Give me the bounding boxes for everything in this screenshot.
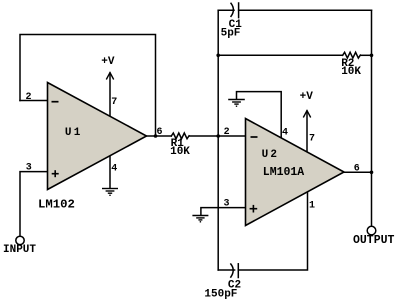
capacitor C1 [231, 3, 233, 16]
wire R1 to U2 pin 2 [189, 135, 245, 137]
wire U1 pin 4 to ground [109, 156, 111, 189]
svg-text:LM102: LM102 [38, 198, 75, 212]
wire C1 to output net [239, 9, 372, 11]
op-amp U2 plus sign [250, 205, 258, 213]
op-amp U1 [48, 83, 147, 190]
wire U2 pin 7 supply [306, 111, 308, 152]
svg-text:+V: +V [300, 91, 314, 103]
wire U1 feedback loop (output to pin 2) [20, 35, 156, 137]
wire summing node to R2 [218, 54, 342, 56]
svg-text:+V: +V [101, 56, 115, 68]
svg-text:10K: 10K [170, 146, 190, 158]
svg-text:5pF: 5pF [221, 27, 241, 39]
wire top to C1 [218, 9, 234, 11]
wire U1 pin 2 input [20, 100, 48, 102]
op-amp U2 minus sign [251, 136, 258, 138]
ground above U2 pin 4 [228, 100, 245, 107]
svg-text:INPUT: INPUT [3, 244, 36, 256]
wire summing node vertical [217, 10, 219, 270]
junction output net at R2 [370, 54, 374, 58]
svg-text:LM101A: LM101A [263, 166, 305, 179]
svg-text:U1: U1 [65, 127, 83, 139]
svg-text:4: 4 [282, 127, 288, 138]
wire U2 output [344, 171, 372, 173]
wire U2 pin 1 to C2 [238, 192, 307, 270]
op-amp U1 minus sign [52, 101, 59, 103]
junction summing node at R1 [216, 134, 220, 138]
svg-text:2: 2 [224, 127, 230, 138]
resistor R1 [171, 133, 189, 139]
op-amp U2 [246, 119, 345, 226]
OUTPUT terminal [367, 226, 376, 235]
svg-text:4: 4 [111, 163, 117, 174]
svg-text:6: 6 [157, 127, 163, 138]
svg-text:10K: 10K [341, 66, 361, 78]
supply arrow +V U2 [303, 111, 310, 118]
supply arrow +V U1 [106, 73, 113, 80]
wire output net vertical [371, 10, 373, 226]
svg-text:7: 7 [309, 134, 315, 145]
svg-text:2: 2 [26, 92, 32, 103]
svg-text:150pF: 150pF [204, 288, 237, 300]
wire C2 left [218, 269, 234, 271]
ground at U2 pin 3 [192, 216, 208, 222]
svg-text:U2: U2 [262, 149, 280, 161]
svg-text:OUTPUT: OUTPUT [353, 234, 395, 247]
svg-text:7: 7 [111, 97, 117, 108]
ground below U1 pin 4 [102, 189, 118, 196]
svg-text:3: 3 [26, 162, 32, 173]
svg-text:6: 6 [354, 163, 360, 174]
wire U1 output to R1 [147, 135, 172, 137]
wire R2 to output net [361, 54, 372, 56]
wire U1 pin 3 to INPUT [20, 172, 48, 237]
resistor R2 [343, 52, 361, 58]
svg-text:1: 1 [309, 200, 315, 211]
junction output net at U2 output [370, 171, 374, 175]
junction summing node at R2 [216, 54, 220, 58]
wire U2 pin 4 to ground [237, 92, 282, 139]
op-amp U1 plus sign [52, 170, 59, 177]
wire U1 pin 7 supply [109, 73, 111, 117]
INPUT terminal [16, 236, 24, 244]
capacitor C2 [231, 264, 233, 277]
wire U2 pin 3 to ground [201, 208, 246, 216]
junction U1 output node [154, 134, 158, 138]
svg-text:3: 3 [224, 199, 230, 210]
